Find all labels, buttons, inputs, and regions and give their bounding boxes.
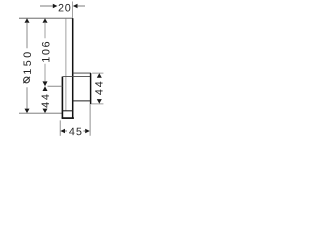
body top inner line (62, 76, 90, 78)
dim 150 line upper segment (26, 22, 28, 48)
dim 44 right bottom extension (91, 103, 104, 105)
dim 106 arrow up (43, 18, 48, 23)
dim 20 label (59, 4, 71, 12)
dim 44 right label (95, 82, 102, 95)
dim 150 arrow up (25, 18, 30, 23)
dim 150 line lower segment (26, 87, 28, 109)
body rear (right) edge, thick (90, 73, 92, 104)
dim 45 right extension line (89, 104, 91, 136)
plate back (right) edge, thick (72, 18, 74, 118)
dim 45 arrow pointing left (60, 129, 65, 133)
handle front edge (61, 77, 63, 118)
dim 20 arrow pointing left (73, 4, 78, 9)
extension line from plate back edge up (71, 2, 73, 18)
handle joint line (62, 110, 72, 112)
dim 106 arrow down (hourglass top) (43, 81, 48, 86)
dim 20 arrow pointing right (53, 4, 58, 9)
dim 20 tail line right (77, 5, 85, 7)
dim 45 arrow right tail (83, 130, 85, 132)
dim 106 line lower segment (44, 64, 46, 81)
body bottom edge (73, 100, 91, 102)
dim 106 line upper segment (44, 22, 46, 38)
dim 44 left arrow up (hourglass bottom) (43, 86, 48, 91)
plate top edge with extension to left (19, 17, 73, 19)
axis stub line (48, 85, 63, 87)
dim 45 arrow left tail (65, 130, 67, 132)
dim 150 label digits (23, 52, 31, 74)
dim 106 label (42, 42, 50, 62)
dim 20 tail line left (40, 5, 53, 7)
dim 44 right arrow up (97, 73, 102, 78)
body top edge (73, 72, 91, 74)
dim 45 label (69, 128, 81, 135)
dim 150 label diameter symbol (23, 77, 30, 83)
dim 45 arrow pointing right (85, 129, 90, 133)
handle bottom edge (62, 117, 74, 119)
baseline extension at plate bottom (19, 112, 62, 114)
dim 44 right top extension (92, 72, 103, 74)
dim 44 right arrow down (97, 99, 102, 104)
dim 45 left extension line (59, 120, 61, 135)
plate front (left) edge (65, 18, 67, 111)
dim 150 arrow down (25, 109, 30, 114)
dim 44 left arrow down (43, 109, 48, 114)
dim 44 left label (42, 94, 49, 107)
